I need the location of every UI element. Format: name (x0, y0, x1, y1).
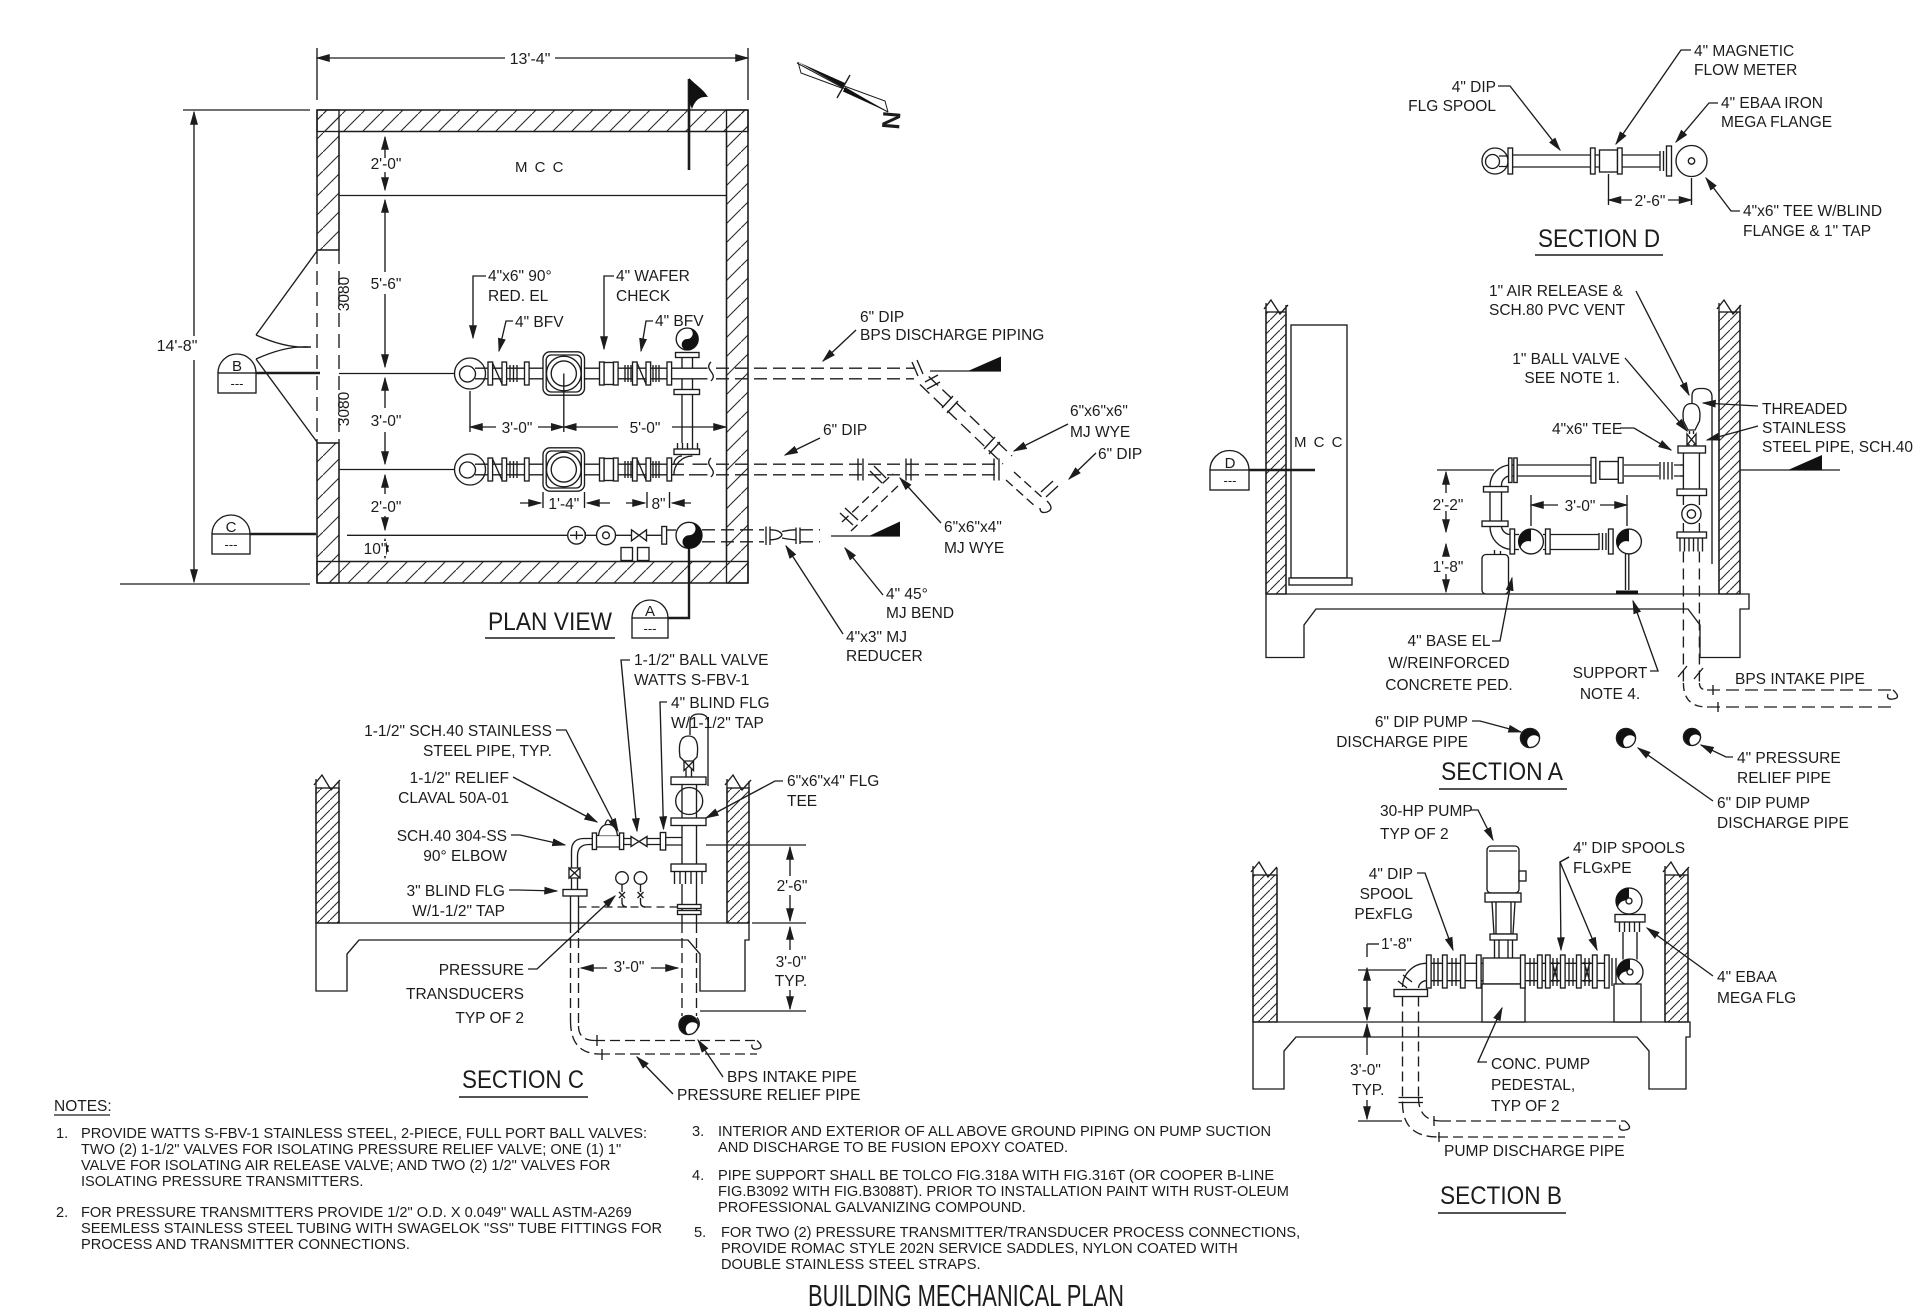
north flag at building corner (689, 78, 708, 170)
svg-text:TYP OF 2: TYP OF 2 (1491, 1098, 1560, 1115)
svg-text:CHECK: CHECK (616, 288, 671, 305)
right discharge train (1521, 955, 1617, 988)
svg-text:4" DIP: 4" DIP (1369, 866, 1413, 883)
section D cut arrow (1740, 455, 1840, 470)
svg-text:SECTION C: SECTION C (462, 1066, 584, 1094)
upper pipe (1511, 465, 1683, 476)
flange at elbow (1509, 458, 1518, 483)
dashed intake riser below floor (682, 923, 697, 1016)
break ticks + end curl on relief pipe (597, 1035, 761, 1060)
flow arrow row1 (930, 370, 1001, 372)
svg-text:TEE: TEE (787, 793, 817, 810)
threaded ticks before tee (1660, 462, 1672, 480)
exterior dashed piping (702, 368, 1045, 542)
tee with blind flange (1676, 146, 1707, 177)
suction elbow upper left (1482, 465, 1511, 555)
svg-text:4"x6" TEE W/BLIND: 4"x6" TEE W/BLIND (1743, 203, 1882, 220)
svg-text:1'-8": 1'-8" (1433, 559, 1464, 576)
flange (1510, 529, 1515, 554)
bend fitting ticks row1 (912, 360, 940, 389)
floor slab with footings (1266, 594, 1749, 658)
svg-text:M C C: M C C (515, 159, 565, 176)
svg-text:SCH.40 304-SS: SCH.40 304-SS (397, 828, 507, 845)
svg-text:1" BALL VALVE: 1" BALL VALVE (1512, 351, 1620, 368)
flow arrow bottom (831, 535, 900, 537)
wall bottom (hatched) (317, 562, 748, 584)
dim 3'-0" TYP right (700, 927, 808, 1011)
svg-text:---: --- (225, 537, 238, 552)
top elbow circle (1616, 888, 1642, 914)
svg-text:6" DIP: 6" DIP (1098, 446, 1142, 463)
svg-text:14'-8": 14'-8" (157, 338, 198, 355)
north arrow (797, 62, 907, 131)
svg-text:3'-0": 3'-0" (1350, 1062, 1381, 1079)
svg-text:TYP OF 2: TYP OF 2 (1380, 826, 1449, 843)
reducer 4x3 (766, 527, 770, 546)
svg-text:FOR TWO (2) PRESSURE TRANSMITT: FOR TWO (2) PRESSURE TRANSMITTER/TRANSDU… (721, 1225, 1300, 1241)
concrete pump pedestal (1482, 984, 1525, 1022)
svg-text:1'-8": 1'-8" (1381, 936, 1412, 953)
wall left lower segment (317, 443, 339, 583)
svg-text:SEE NOTE 1.: SEE NOTE 1. (1524, 370, 1620, 387)
wye 6x6x4 bells (870, 466, 886, 483)
left suction train (1427, 955, 1484, 988)
BPS intake pipe dashed (1707, 690, 1893, 707)
break ticks on riser (1678, 666, 1703, 679)
svg-text:13'-4": 13'-4" (510, 51, 551, 68)
section marker D (1210, 451, 1315, 491)
svg-text:DOUBLE STAINLESS STEEL STRAPS.: DOUBLE STAINLESS STEEL STRAPS. (721, 1257, 981, 1273)
svg-text:4" DIP: 4" DIP (1452, 79, 1496, 96)
concrete pedestal (1482, 555, 1509, 595)
pedestal under riser (1614, 984, 1641, 1022)
section marker A (632, 548, 689, 638)
leader lines (1470, 291, 1758, 840)
30-HP pump motor (1483, 846, 1526, 984)
6x6x6 wye bells (994, 459, 999, 481)
wall left upper segment (317, 110, 339, 250)
labels (364, 652, 769, 1027)
svg-text:MJ BEND: MJ BEND (886, 605, 954, 622)
dim 13'-4" top (317, 48, 748, 100)
svg-text:8": 8" (651, 496, 665, 513)
leader lines (1498, 50, 1740, 211)
wall top (hatched) (317, 110, 748, 132)
dim 3'-0" TYP (1346, 1024, 1402, 1121)
end ticks + curl lower right (1041, 481, 1058, 497)
break ticks + end curl (1713, 685, 1898, 712)
floor slab with footings (316, 923, 749, 991)
svg-text:TRANSDUCERS: TRANSDUCERS (406, 986, 524, 1003)
svg-text:6"x6"x4" FLG: 6"x6"x4" FLG (787, 773, 879, 790)
svg-text:RED. EL: RED. EL (488, 288, 549, 305)
note 4 (692, 1168, 1289, 1216)
svg-text:6"x6"x6": 6"x6"x6" (1070, 403, 1128, 420)
wye to lower right 6" DIP stub (1006, 472, 1045, 508)
left wall hatched (1251, 862, 1277, 1022)
svg-text:---: --- (644, 621, 657, 636)
MCC cabinet (1289, 325, 1352, 585)
svg-text:6" DIP PUMP: 6" DIP PUMP (1375, 714, 1468, 731)
plan dim 1'-4" / 8" (520, 492, 691, 513)
svg-text:5'-0": 5'-0" (630, 420, 661, 437)
labels (1336, 283, 1913, 843)
PLAN VIEW title (485, 608, 615, 638)
svg-text:STEEL PIPE, TYP.: STEEL PIPE, TYP. (423, 743, 552, 760)
svg-text:BPS INTAKE PIPE: BPS INTAKE PIPE (727, 1069, 857, 1086)
riser with mega flange (1615, 915, 1645, 960)
svg-text:2'-6": 2'-6" (1635, 193, 1666, 210)
notes header (54, 1098, 112, 1115)
intake pipe end crescent (679, 1016, 699, 1036)
svg-text:MJ WYE: MJ WYE (1070, 424, 1130, 441)
dim 14'-8" left (120, 110, 310, 584)
flange pair (1546, 529, 1551, 554)
svg-text:C: C (226, 519, 237, 536)
svg-text:30-HP PUMP: 30-HP PUMP (1380, 803, 1473, 820)
mega flange (1660, 146, 1672, 176)
gauge on tee (676, 328, 698, 350)
flanged spool pipe (1482, 148, 1591, 174)
svg-text:1" AIR RELEASE &: 1" AIR RELEASE & (1489, 283, 1624, 300)
dim 3'-0" pumps (1531, 495, 1627, 526)
svg-text:1-1/2" BALL VALVE: 1-1/2" BALL VALVE (634, 652, 768, 669)
svg-text:STEEL PIPE, SCH.40: STEEL PIPE, SCH.40 (1762, 439, 1913, 456)
pipe break symbols rows 1,2 (709, 362, 714, 477)
pipe support stand (1616, 554, 1638, 594)
svg-text:DISCHARGE PIPE: DISCHARGE PIPE (1717, 815, 1849, 832)
svg-text:3'-0": 3'-0" (776, 954, 807, 971)
SECTION A title (1439, 758, 1567, 789)
svg-text:TYP.: TYP. (775, 973, 807, 990)
magnetic flow meter (1591, 148, 1661, 174)
MJ bells on row2 (858, 459, 911, 481)
svg-text:ISOLATING PRESSURE TRANSMITTER: ISOLATING PRESSURE TRANSMITTERS. (81, 1174, 363, 1190)
pump train row 2 (339, 448, 684, 491)
lower pump suction pipe (1511, 535, 1599, 550)
svg-text:3.: 3. (692, 1124, 704, 1140)
svg-text:6" DIP: 6" DIP (860, 309, 904, 326)
svg-text:4" WAFER: 4" WAFER (616, 268, 690, 285)
threaded ticks + flange (1599, 529, 1613, 554)
svg-text:3080: 3080 (336, 276, 353, 311)
svg-text:2'-0": 2'-0" (371, 156, 402, 173)
svg-text:2'-0": 2'-0" (371, 499, 402, 516)
svg-text:1-1/2" RELIEF: 1-1/2" RELIEF (410, 770, 509, 787)
svg-text:NOTES:: NOTES: (54, 1098, 112, 1115)
svg-text:FIG.B3092 WITH FIG.B3088T). PR: FIG.B3092 WITH FIG.B3088T). PRIOR TO INS… (718, 1184, 1289, 1200)
pipe section circles (1521, 729, 1702, 749)
SECTION C title (459, 1066, 588, 1097)
row2 6" DIP dashed (716, 464, 996, 475)
svg-text:AND DISCHARGE TO BE FUSION EPO: AND DISCHARGE TO BE FUSION EPOXY COATED. (718, 1140, 1068, 1156)
dashed relief pipe below floor (571, 923, 758, 1054)
door leaf lower (256, 347, 317, 442)
door opening dashed jambs (317, 250, 339, 443)
ball valve and air release on tee (1683, 404, 1700, 447)
dim 1'-8" (1433, 544, 1464, 592)
svg-text:MEGA FLANGE: MEGA FLANGE (1721, 114, 1832, 131)
svg-text:90° ELBOW: 90° ELBOW (423, 848, 507, 865)
svg-text:3" BLIND FLG: 3" BLIND FLG (406, 883, 505, 900)
svg-text:PROCESS AND TRANSMITTER CONNEC: PROCESS AND TRANSMITTER CONNECTIONS. (81, 1237, 410, 1253)
svg-text:PROVIDE ROMAC STYLE 202N SERVI: PROVIDE ROMAC STYLE 202N SERVICE SADDLES… (721, 1241, 1238, 1257)
svg-text:PUMP DISCHARGE PIPE: PUMP DISCHARGE PIPE (1444, 1143, 1625, 1160)
dim 3'-0" bottom between pipes (581, 959, 678, 976)
svg-text:RELIEF PIPE: RELIEF PIPE (1737, 770, 1831, 787)
svg-text:PIPE SUPPORT SHALL BE TOLCO FI: PIPE SUPPORT SHALL BE TOLCO FIG.318A WIT… (718, 1168, 1274, 1184)
svg-text:PLAN VIEW: PLAN VIEW (488, 608, 612, 636)
left wall hatched (1264, 300, 1288, 594)
svg-text:CONCRETE PED.: CONCRETE PED. (1385, 677, 1512, 694)
pump pipe circle 1 (1519, 529, 1544, 554)
svg-text:SUPPORT: SUPPORT (1573, 665, 1648, 682)
bottom 4" relief dashed (702, 530, 764, 542)
labels (1354, 840, 1796, 1160)
flange bars on dashed riser (1399, 1098, 1424, 1103)
labels (1408, 43, 1882, 240)
break ticks + end curl (1434, 1116, 1630, 1142)
svg-text:4" PRESSURE: 4" PRESSURE (1737, 750, 1841, 767)
svg-text:5'-6": 5'-6" (371, 276, 402, 293)
svg-text:3'-0": 3'-0" (371, 413, 402, 430)
svg-text:PExFLG: PExFLG (1354, 906, 1413, 923)
note 5 (694, 1225, 1300, 1273)
plan leader lines (473, 276, 1096, 634)
svg-text:VALVE FOR ISOLATING AIR RELEAS: VALVE FOR ISOLATING AIR RELEASE VALVE; A… (81, 1158, 610, 1174)
dim 2'-6" (706, 845, 809, 923)
svg-text:4" EBAA: 4" EBAA (1717, 969, 1777, 986)
section marker B (218, 354, 320, 393)
6" riser column right (671, 714, 708, 923)
PVC vent pipe (1692, 389, 1712, 565)
BPS INTAKE + PRESSURE RELIEF labels (677, 1069, 860, 1104)
leader lines (509, 660, 783, 1094)
riser tee column (1677, 446, 1707, 552)
svg-text:A: A (645, 603, 655, 620)
pressure transducers (616, 872, 647, 907)
door leaf upper (256, 251, 317, 347)
row1 45 deg diagonal (920, 377, 1012, 465)
bottom relief row (347, 522, 702, 560)
plan labels (488, 268, 1142, 665)
svg-text:4.: 4. (692, 1168, 704, 1184)
dashed elbow to intake pipe (1683, 683, 1707, 707)
svg-text:W/1-1/2" TAP: W/1-1/2" TAP (412, 903, 505, 920)
leader lines (1417, 857, 1713, 1062)
svg-text:4"x6" 90°: 4"x6" 90° (488, 268, 552, 285)
svg-text:4" BFV: 4" BFV (655, 313, 704, 330)
bottom 45 deg diagonal (842, 474, 900, 532)
dim 1'-8" (1358, 936, 1412, 1020)
svg-text:STAINLESS: STAINLESS (1762, 420, 1846, 437)
svg-text:FOR PRESSURE TRANSMITTERS PROV: FOR PRESSURE TRANSMITTERS PROVIDE 1/2" O… (81, 1205, 632, 1221)
svg-text:FLG SPOOL: FLG SPOOL (1408, 98, 1496, 115)
plan dim 3'-0" / 5'-0" (470, 374, 726, 438)
svg-text:3'-0": 3'-0" (614, 959, 645, 976)
suction elbow down + mega flange (1394, 963, 1428, 996)
note 2 (56, 1205, 662, 1253)
right wall hatched (1663, 862, 1689, 1022)
svg-text:4" BFV: 4" BFV (515, 314, 564, 331)
svg-text:CLAVAL 50A-01: CLAVAL 50A-01 (398, 790, 509, 807)
svg-text:PROFESSIONAL GALVANIZING COMPO: PROFESSIONAL GALVANIZING COMPOUND. (718, 1200, 1026, 1216)
svg-text:3'-0": 3'-0" (502, 420, 533, 437)
svg-text:2'-2": 2'-2" (1433, 497, 1464, 514)
discharge header between rows (672, 395, 708, 475)
svg-text:SCH.80 PVC VENT: SCH.80 PVC VENT (1489, 302, 1626, 319)
relief riser column left (563, 839, 593, 924)
tee with gauge row 1 (674, 328, 708, 395)
svg-text:PRESSURE RELIEF PIPE: PRESSURE RELIEF PIPE (677, 1087, 860, 1104)
left wall hatched (314, 775, 340, 923)
BPS intake dashed riser (1683, 552, 1699, 684)
svg-text:INTERIOR AND EXTERIOR OF ALL A: INTERIOR AND EXTERIOR OF ALL ABOVE GROUN… (718, 1124, 1271, 1140)
svg-text:PROVIDE WATTS S-FBV-1 STAINLES: PROVIDE WATTS S-FBV-1 STAINLESS STEEL, 2… (81, 1126, 647, 1142)
wall right (hatched) (727, 110, 749, 583)
svg-text:REDUCER: REDUCER (846, 648, 923, 665)
svg-text:MJ WYE: MJ WYE (944, 540, 1004, 557)
SECTION D title (1535, 225, 1663, 255)
SECTION B title (1438, 1182, 1566, 1213)
svg-text:D: D (1225, 455, 1236, 472)
svg-text:3080: 3080 (336, 391, 353, 426)
svg-text:1.: 1. (56, 1126, 68, 1142)
note 3 (692, 1124, 1271, 1156)
svg-text:10": 10" (364, 541, 387, 558)
svg-text:CONC. PUMP: CONC. PUMP (1491, 1056, 1590, 1073)
svg-text:MEGA FLG: MEGA FLG (1717, 990, 1796, 1007)
svg-text:BPS INTAKE PIPE: BPS INTAKE PIPE (1735, 671, 1865, 688)
interior dim string left: 2'-0" / 5'-6" / 3'-0" / 2'-0" / 10" (364, 137, 402, 558)
MCC line (339, 195, 726, 197)
svg-text:THREADED: THREADED (1762, 401, 1847, 418)
svg-text:4" DIP SPOOLS: 4" DIP SPOOLS (1573, 840, 1685, 857)
dim 2'-2" (1433, 470, 1494, 532)
svg-text:TYP.: TYP. (1352, 1082, 1384, 1099)
svg-text:TWO (2) 1-1/2" VALVES FOR ISOL: TWO (2) 1-1/2" VALVES FOR ISOLATING PRES… (81, 1142, 621, 1158)
dashed suction pipe below floor (1403, 997, 1626, 1138)
svg-text:---: --- (1224, 473, 1237, 488)
svg-text:2'-6": 2'-6" (777, 878, 808, 895)
svg-text:5.: 5. (694, 1225, 706, 1241)
svg-text:4"x6" TEE: 4"x6" TEE (1552, 421, 1622, 438)
sensing tubing dashed (579, 906, 683, 908)
svg-text:PRESSURE: PRESSURE (439, 962, 524, 979)
svg-text:1'-4": 1'-4" (548, 496, 579, 513)
MJ bells on diagonal 1 (942, 396, 1000, 454)
svg-text:FLANGE & 1" TAP: FLANGE & 1" TAP (1743, 223, 1871, 240)
4" blind flange with tap (660, 833, 682, 851)
svg-text:4"x3" MJ: 4"x3" MJ (846, 629, 907, 646)
right wall hatched (1717, 300, 1741, 594)
svg-text:1-1/2" SCH.40 STAINLESS: 1-1/2" SCH.40 STAINLESS (364, 723, 552, 740)
svg-text:4" BLIND FLG: 4" BLIND FLG (671, 695, 770, 712)
svg-text:FLGxPE: FLGxPE (1573, 860, 1632, 877)
svg-text:BUILDING MECHANICAL PLAN: BUILDING MECHANICAL PLAN (808, 1278, 1124, 1313)
svg-text:4" MAGNETIC: 4" MAGNETIC (1694, 43, 1794, 60)
svg-text:M C C: M C C (1294, 434, 1344, 451)
row1 6" DIP discharge dashed (716, 368, 914, 379)
svg-text:4" 45°: 4" 45° (886, 586, 928, 603)
svg-text:N: N (877, 110, 906, 130)
svg-text:3'-0": 3'-0" (1565, 498, 1596, 515)
floor slab with footings (1253, 1022, 1690, 1089)
coupling spool (1591, 458, 1623, 484)
svg-text:SEEMLESS STAINLESS STEEL TUBIN: SEEMLESS STAINLESS STEEL TUBING WITH SWA… (81, 1221, 662, 1237)
right wall hatched (725, 775, 751, 923)
ball valve (624, 837, 661, 847)
svg-text:SECTION A: SECTION A (1441, 758, 1563, 786)
svg-text:---: --- (231, 376, 244, 391)
svg-text:B: B (232, 358, 242, 375)
svg-text:W/1-1/2" TAP: W/1-1/2" TAP (671, 715, 764, 732)
relief valve CLAVAL (592, 820, 623, 850)
note 1 (56, 1126, 647, 1190)
section marker C (212, 515, 316, 554)
svg-text:WATTS S-FBV-1: WATTS S-FBV-1 (634, 672, 749, 689)
svg-text:6" DIP PUMP: 6" DIP PUMP (1717, 795, 1810, 812)
svg-text:DISCHARGE PIPE: DISCHARGE PIPE (1336, 734, 1468, 751)
svg-text:SECTION D: SECTION D (1538, 225, 1660, 253)
svg-text:SECTION B: SECTION B (1440, 1182, 1562, 1210)
svg-text:FLOW METER: FLOW METER (1694, 62, 1797, 79)
svg-text:SPOOL: SPOOL (1360, 886, 1414, 903)
svg-text:W/REINFORCED: W/REINFORCED (1388, 655, 1509, 672)
dim 2'-6" (1609, 174, 1692, 210)
pump pipe circle 2 (1617, 529, 1642, 554)
svg-text:NOTE 4.: NOTE 4. (1580, 686, 1640, 703)
6x6x4 FLG TEE label (787, 773, 879, 810)
svg-text:PEDESTAL,: PEDESTAL, (1491, 1077, 1575, 1094)
svg-text:2.: 2. (56, 1205, 68, 1221)
bend ticks bottom diagonal (840, 508, 858, 525)
EBAA elbow circle bottom (1617, 959, 1643, 985)
svg-text:4" EBAA IRON: 4" EBAA IRON (1721, 95, 1823, 112)
svg-text:4" BASE EL: 4" BASE EL (1407, 633, 1490, 650)
svg-text:BPS DISCHARGE PIPING: BPS DISCHARGE PIPING (860, 327, 1044, 344)
pump train row 1 (339, 352, 684, 395)
svg-text:TYP OF 2: TYP OF 2 (455, 1010, 524, 1027)
svg-text:6" DIP: 6" DIP (823, 422, 867, 439)
svg-text:6"x6"x4": 6"x6"x4" (944, 519, 1002, 536)
